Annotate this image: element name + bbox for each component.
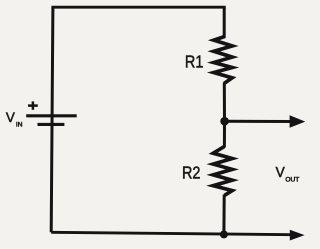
label V_IN: [6, 108, 23, 128]
output arrowhead (Vout -): [290, 230, 305, 241]
output arrowhead (Vout +): [290, 115, 306, 128]
wire left vertical (through battery): [51, 7, 53, 232]
svg-text:R1: R1: [185, 53, 204, 71]
wire R1 bottom to junction: [223, 83, 226, 122]
node bottom junction: [220, 230, 228, 238]
resistor R1: [214, 37, 232, 84]
wire junction to R2 top: [223, 121, 226, 147]
svg-text:IN: IN: [16, 122, 23, 129]
resistor R2: [213, 146, 232, 195]
battery V_IN: [26, 101, 76, 124]
label V_OUT: [276, 164, 300, 184]
node junction of R1/R2 and output tap: [220, 117, 229, 126]
wire right vertical upper: [223, 7, 226, 38]
svg-text:V: V: [6, 108, 16, 124]
wire bottom horizontal: [51, 232, 291, 234]
wire top horizontal: [51, 6, 225, 9]
wire R2 bottom to bottom rail: [222, 195, 225, 235]
svg-text:OUT: OUT: [285, 177, 299, 184]
svg-text:R2: R2: [182, 164, 201, 182]
wire output tap horizontal: [225, 120, 292, 123]
svg-text:V: V: [276, 164, 286, 180]
